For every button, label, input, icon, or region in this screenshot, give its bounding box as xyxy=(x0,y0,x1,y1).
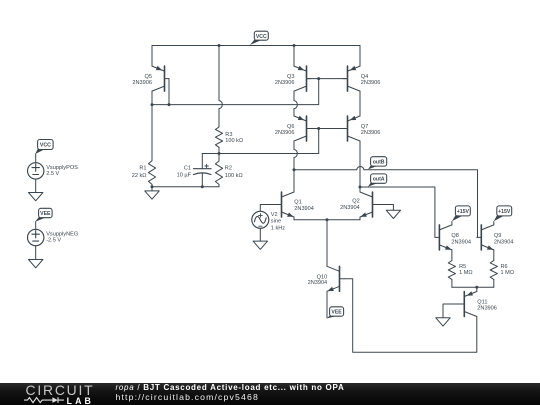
node Q5 base junction xyxy=(168,103,171,106)
wire outA net xyxy=(360,187,435,237)
net flag VCC xyxy=(35,140,53,155)
svg-text:100 kΩ: 100 kΩ xyxy=(225,173,243,179)
net flag outA xyxy=(368,174,387,187)
transistor Q4 xyxy=(343,66,380,91)
transistor Q11 xyxy=(460,291,497,316)
footer bar xyxy=(0,383,540,405)
svg-text:R2: R2 xyxy=(225,166,232,172)
resistor R6 xyxy=(490,261,514,280)
svg-text:2N3906: 2N3906 xyxy=(275,80,295,86)
wire Q5 base branch xyxy=(168,79,170,105)
wire VCC flag lead xyxy=(35,154,37,163)
svg-text:outA: outA xyxy=(373,177,385,183)
svg-text:2N3906: 2N3906 xyxy=(361,80,381,86)
wire R1 top lead xyxy=(151,105,153,161)
svg-text:V2: V2 xyxy=(271,212,278,218)
transistor Q3 xyxy=(275,66,311,91)
svg-text:100 kΩ: 100 kΩ xyxy=(225,138,243,144)
voltage source VsupplyPOS xyxy=(28,163,79,179)
transistor Q7 xyxy=(343,116,380,141)
svg-text:2N3906: 2N3906 xyxy=(477,306,497,312)
net flag VCC xyxy=(250,31,268,45)
svg-text:VEE: VEE xyxy=(40,211,51,217)
CircuitLab logo: CIRCUIT xyxy=(26,384,95,397)
net flag +15V xyxy=(494,206,512,221)
svg-text:22 kΩ: 22 kΩ xyxy=(132,173,147,179)
svg-text:outB: outB xyxy=(373,160,385,166)
ground xyxy=(436,318,450,326)
node Q11 emitter junction xyxy=(475,286,478,289)
wire tail down to Q10 xyxy=(326,220,328,266)
wire C1 bottom lead xyxy=(201,173,203,187)
svg-text:2N3904: 2N3904 xyxy=(494,239,514,245)
wire Q4 collector to Q7 emitter xyxy=(359,91,361,116)
wire Q2 emitter lead xyxy=(359,217,361,220)
svg-text:2N3904: 2N3904 xyxy=(294,206,314,212)
node bias-base junction xyxy=(317,77,320,80)
transistor Q8 xyxy=(435,225,471,250)
wire Q3-Q4 base xyxy=(307,78,348,80)
svg-text:2N3904: 2N3904 xyxy=(308,280,328,286)
svg-text:2N3906: 2N3906 xyxy=(275,130,295,136)
wire outB net xyxy=(294,167,478,238)
voltage source V2 xyxy=(252,211,286,231)
wire VCC top rail xyxy=(152,45,360,47)
svg-text:-2.5 V: -2.5 V xyxy=(46,238,61,244)
svg-text:1 MΩ: 1 MΩ xyxy=(459,270,473,276)
net flag +15V xyxy=(452,206,470,221)
node R1-ground junction xyxy=(151,185,154,188)
wire Q8 emitter lead xyxy=(451,250,453,261)
svg-text:10 µF: 10 µF xyxy=(177,172,192,178)
wire R3 top lead xyxy=(219,46,222,128)
svg-text:Q1: Q1 xyxy=(294,200,301,206)
transistor Q5 xyxy=(132,66,169,91)
ground xyxy=(253,241,267,249)
voltage source VsupplyNEG xyxy=(28,229,79,245)
svg-text:VCC: VCC xyxy=(40,143,51,149)
footer title text xyxy=(116,383,345,392)
node outB junction xyxy=(293,168,296,171)
wire Q1 emitter lead xyxy=(293,217,295,220)
svg-text:Q8: Q8 xyxy=(451,233,458,239)
wire R2 top lead xyxy=(218,154,220,162)
ground xyxy=(29,260,43,268)
wire Q11 base to ground xyxy=(443,304,460,318)
wire V2 bottom lead xyxy=(259,228,261,241)
svg-text:VCC: VCC xyxy=(256,34,267,40)
node Q6 base junction xyxy=(317,127,320,130)
wire Q2 base to ground xyxy=(377,205,393,211)
wire VsupplyNEG bottom lead xyxy=(35,246,37,260)
wire Q9 collector stub xyxy=(493,222,495,225)
resistor R1 xyxy=(132,161,156,185)
wire R5 bottom lead xyxy=(451,280,453,288)
wire Q3 collector to Q6 emitter xyxy=(294,91,297,116)
resistor R3 xyxy=(215,127,243,147)
node Q5 collector junction xyxy=(151,103,154,106)
wire VEE flag lead xyxy=(35,222,37,230)
wire C1 top lead xyxy=(201,154,203,169)
svg-text:VsupplyNEG: VsupplyNEG xyxy=(46,231,78,237)
svg-text:+15V: +15V xyxy=(498,209,511,215)
wire Q9 emitter lead xyxy=(493,250,495,261)
wire Q2 collector lead xyxy=(359,187,361,192)
transistor Q6 xyxy=(275,116,311,141)
svg-text:1 kHz: 1 kHz xyxy=(271,225,286,231)
transistor Q1 xyxy=(277,192,314,217)
svg-text:Q9: Q9 xyxy=(494,233,501,239)
wire Q6 collector lead xyxy=(294,141,297,170)
wire Q6-Q7 base xyxy=(307,128,348,130)
wire Q3 emitter lead xyxy=(293,46,295,67)
wire R5-R6 bottom bus xyxy=(452,286,494,288)
node R3-R2 junction xyxy=(218,152,221,155)
wire VsupplyPOS bottom lead xyxy=(35,179,37,192)
svg-text:2N3904: 2N3904 xyxy=(451,239,471,245)
svg-text:VEE: VEE xyxy=(331,310,342,316)
wire Q7 collector lead xyxy=(359,141,361,187)
node tail junction xyxy=(326,218,329,221)
resistor R5 xyxy=(448,261,472,280)
svg-text:2.5 V: 2.5 V xyxy=(46,171,59,177)
CircuitLab logo circuit glyph (resistor + diode) xyxy=(23,395,66,405)
ground xyxy=(145,187,159,199)
wire mirror bias net xyxy=(152,79,319,105)
wire Q5 emitter lead xyxy=(151,46,153,67)
wire Q5 collector lead xyxy=(151,91,153,105)
wire Q10 base to Q11 collector xyxy=(344,279,477,352)
svg-text:sine: sine xyxy=(271,219,281,225)
svg-text:+15V: +15V xyxy=(457,209,470,215)
wire base branch down xyxy=(318,129,320,154)
ground xyxy=(386,210,400,218)
svg-text:C1: C1 xyxy=(184,165,191,171)
wire R1 bottom lead xyxy=(151,184,153,186)
wire R2 bottom lead xyxy=(218,184,220,186)
transistor Q2 xyxy=(340,192,377,217)
svg-text:1 MΩ: 1 MΩ xyxy=(501,270,515,276)
net flag VEE xyxy=(35,208,52,221)
capacitor C1 xyxy=(177,164,211,178)
svg-text:R1: R1 xyxy=(139,166,146,172)
node rail-Q3 junction xyxy=(293,44,296,47)
wire Q10 emitter lead xyxy=(326,291,328,318)
node C1 bottom junction xyxy=(201,185,204,188)
wire Q8 collector stub xyxy=(451,222,453,225)
svg-text:Q2: Q2 xyxy=(352,199,359,205)
footer url xyxy=(116,392,259,402)
wire ground bus xyxy=(152,186,219,188)
wire Q1 collector lead xyxy=(293,170,295,192)
wire tail xyxy=(294,219,360,221)
node outA junction xyxy=(359,186,362,189)
net flag VEE xyxy=(327,307,344,319)
wire Q11 emitter lead xyxy=(476,287,478,291)
svg-text:VsupplyPOS: VsupplyPOS xyxy=(46,165,78,171)
wire V2 to Q1 base xyxy=(260,205,281,212)
net flag outB xyxy=(368,157,387,170)
wire R3 bottom lead xyxy=(218,147,220,153)
CircuitLab logo: LAB xyxy=(67,396,94,405)
node rail-R3 junction xyxy=(218,44,221,47)
svg-text:2N3906: 2N3906 xyxy=(132,80,152,86)
wire Q4 emitter lead xyxy=(359,46,361,67)
transistor Q9 xyxy=(477,225,514,250)
ground xyxy=(29,193,43,201)
wire divider net xyxy=(202,153,318,155)
svg-text:2N3906: 2N3906 xyxy=(361,130,381,136)
transistor Q10 xyxy=(308,266,344,291)
wire R6 bottom lead xyxy=(493,280,495,288)
resistor R2 xyxy=(215,161,242,184)
svg-text:2N3904: 2N3904 xyxy=(340,205,360,211)
